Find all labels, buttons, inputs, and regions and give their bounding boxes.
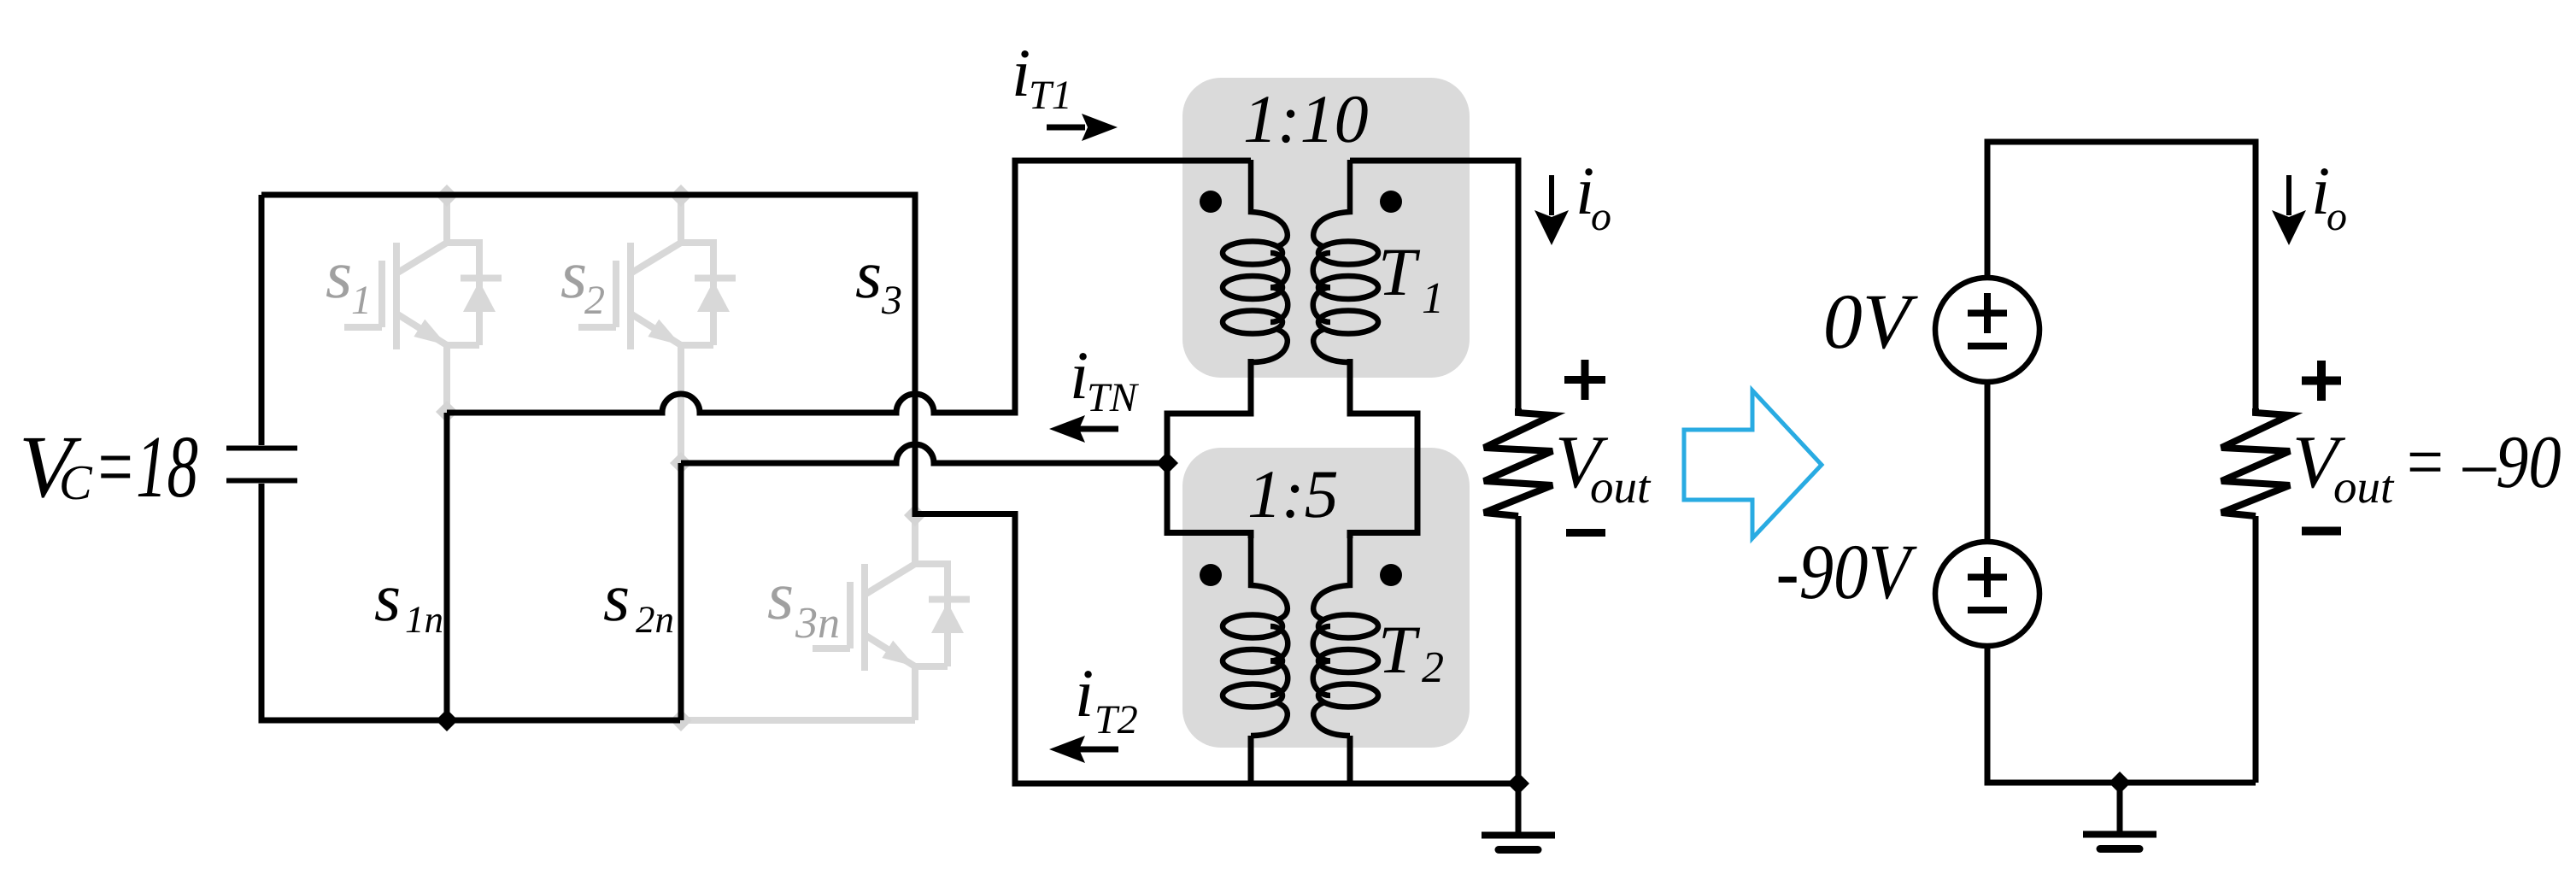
voltage source V2 (-90V) circle — [1935, 542, 2039, 646]
svg-text:1:10: 1:10 — [1243, 82, 1369, 157]
svg-text:3: 3 — [881, 278, 902, 323]
wire: T2 primary bottom lead — [1248, 736, 1254, 783]
gray bottom rail segment under s3n — [681, 717, 915, 724]
wire: S2 emitter stub — [678, 345, 684, 463]
svg-text:1n: 1n — [405, 598, 443, 641]
node: S1 emitter / net A (gray diamond) — [436, 401, 458, 423]
node: S3n collector (gray diamond) — [904, 504, 926, 526]
svg-text:T1: T1 — [1029, 73, 1072, 118]
T1 secondary polarity dot — [1380, 191, 1402, 213]
plus sign at Vout (right circuit) — [2302, 361, 2341, 401]
wire: S1 emitter stub — [443, 345, 450, 413]
svg-text:s: s — [767, 559, 794, 634]
svg-text:T: T — [1378, 235, 1421, 310]
wire: T2 secondary bottom lead — [1347, 736, 1353, 783]
wire: below right resistor — [2253, 516, 2259, 783]
transistor S1 (IGBT, off, gray) — [344, 195, 502, 349]
node: right ground junction (black diamond) — [2109, 772, 2131, 794]
resistor Vout (left circuit) — [1484, 408, 1552, 516]
svg-text:-90V: -90V — [1776, 528, 1918, 615]
svg-text:i: i — [1070, 338, 1088, 414]
transformer T1 secondary winding — [1313, 160, 1378, 362]
svg-text:s: s — [855, 238, 882, 313]
current arrow iT1 — [1047, 125, 1085, 131]
current arrow io (left circuit) — [1549, 175, 1554, 215]
node: output ground junction (black diamond) — [1507, 772, 1529, 795]
node: S1n at bottom rail (black diamond) — [436, 709, 458, 731]
current arrow iT2 — [1079, 747, 1118, 753]
wire: series link T1 secondary to T2 secondary (right bracket) — [1350, 359, 1417, 538]
svg-text:1: 1 — [1422, 274, 1444, 323]
svg-text:1:5: 1:5 — [1247, 457, 1339, 532]
svg-text:i: i — [1075, 656, 1094, 731]
capacitor VC top plate — [226, 446, 297, 451]
svg-text:0V: 0V — [1823, 278, 1919, 365]
svg-text:1: 1 — [351, 278, 372, 323]
wire: top rail, switch leg S3 (closed), elbow and bottom wire to ground node — [261, 195, 1518, 783]
wire: output node below resistor — [1516, 516, 1522, 783]
wire: switch leg S2n (closed) — [678, 463, 684, 720]
transistor S2 (IGBT, off, gray) — [578, 195, 736, 349]
node: S2 emitter / net B (gray diamond) — [670, 452, 692, 474]
svg-text:T2: T2 — [1094, 697, 1138, 742]
wire: equivalent circuit top rail — [1987, 142, 2256, 408]
current arrow io (right circuit) — [2286, 175, 2291, 215]
wire: series link T1 primary to T2 primary (left bracket) — [1167, 359, 1251, 538]
svg-text:s: s — [374, 560, 401, 636]
ground (right circuit) — [2083, 783, 2156, 849]
minus sign at Vout (left circuit) — [1566, 529, 1605, 537]
ground (left circuit) — [1482, 783, 1555, 850]
svg-text:out: out — [2333, 461, 2395, 513]
node: S2 collector at top rail (gray diamond) — [670, 185, 692, 207]
svg-text:2n: 2n — [636, 598, 674, 641]
svg-text:o: o — [1591, 194, 1611, 239]
svg-text:T: T — [1378, 613, 1421, 688]
wire: S3n emitter stub to gray rail — [912, 666, 918, 720]
svg-text:C: C — [59, 455, 93, 510]
T1 primary polarity dot — [1200, 191, 1222, 213]
transformer T2 secondary winding — [1313, 533, 1378, 736]
svg-text:2: 2 — [584, 278, 605, 323]
svg-text:o: o — [2327, 194, 2347, 239]
wire: between source V1 and V2 — [1985, 382, 1991, 542]
voltage source V1 (0V) circle — [1935, 278, 2039, 382]
current arrow iTN — [1079, 426, 1118, 432]
transformer T2 primary winding — [1223, 533, 1288, 736]
transformer T1 primary winding — [1223, 160, 1288, 362]
wire: T1 secondary top lead to output node — [1350, 161, 1518, 408]
node: S1 collector at top rail (gray diamond) — [436, 185, 458, 207]
svg-text:out: out — [1590, 461, 1652, 513]
svg-text:TN: TN — [1087, 375, 1140, 420]
transistor S3n (IGBT, off, gray) — [813, 516, 970, 671]
blue equivalence arrow — [1684, 390, 1822, 538]
wire: S3n collector stub — [912, 515, 918, 516]
svg-text:s: s — [326, 238, 352, 313]
V2 plus/minus marks — [1968, 557, 2007, 610]
svg-text:i: i — [1012, 36, 1030, 111]
T2 secondary polarity dot — [1380, 564, 1402, 586]
wire: switch leg S1n (closed) — [444, 413, 450, 720]
svg-text:= –90: = –90 — [2403, 421, 2561, 504]
resistor Vout (right circuit) — [2221, 408, 2290, 516]
V1 plus/minus marks — [1968, 293, 2007, 346]
minus sign at Vout (right circuit) — [2302, 527, 2341, 536]
svg-text:2: 2 — [1422, 643, 1444, 692]
wire: below source V2 + bottom rail — [1987, 646, 2256, 783]
transformer T2 gray highlight box — [1182, 448, 1470, 748]
T2 primary polarity dot — [1200, 564, 1222, 586]
plus sign at Vout (left circuit) — [1564, 360, 1605, 400]
wire: capacitor bottom lead + bottom rail — [261, 484, 680, 720]
transformer T1 gray highlight box — [1182, 78, 1470, 378]
svg-text:s: s — [560, 238, 587, 313]
wire: net A from S1 midpoint to T1 primary (hops over legs 2 and 3) — [447, 161, 1251, 413]
svg-text:=18: =18 — [94, 418, 198, 516]
node: net B tap on series link (black diamond) — [1156, 452, 1178, 474]
svg-text:s: s — [603, 560, 630, 636]
node: S3n emitter at bottom rail (gray diamond) — [670, 709, 692, 731]
capacitor VC bottom plate — [226, 478, 297, 484]
svg-text:3n: 3n — [795, 599, 840, 648]
wire: net B from S2 midpoint to transformer tap (hops over leg 3) — [681, 444, 1167, 463]
wire: capacitor top lead — [259, 195, 265, 445]
